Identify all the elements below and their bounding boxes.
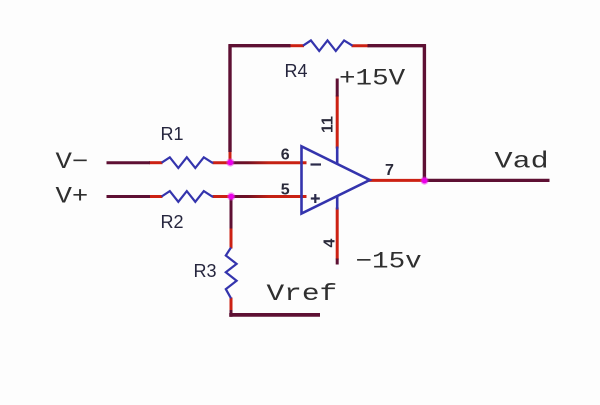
- svg-text:7: 7: [385, 162, 394, 179]
- svg-text:R4: R4: [285, 61, 308, 81]
- svg-text:5: 5: [281, 181, 290, 198]
- svg-text:4: 4: [321, 238, 338, 247]
- svg-text:11: 11: [319, 116, 336, 133]
- svg-text:−15v: −15v: [356, 248, 422, 274]
- svg-text:R3: R3: [194, 261, 217, 281]
- svg-text:R1: R1: [161, 124, 184, 144]
- svg-text:Vref: Vref: [267, 281, 338, 307]
- svg-text:R2: R2: [161, 212, 184, 232]
- svg-text:V+: V+: [56, 183, 89, 209]
- svg-text:Vad: Vad: [495, 150, 549, 176]
- svg-text:+15V: +15V: [339, 65, 406, 91]
- svg-text:6: 6: [281, 146, 290, 163]
- svg-text:V−: V−: [56, 149, 89, 175]
